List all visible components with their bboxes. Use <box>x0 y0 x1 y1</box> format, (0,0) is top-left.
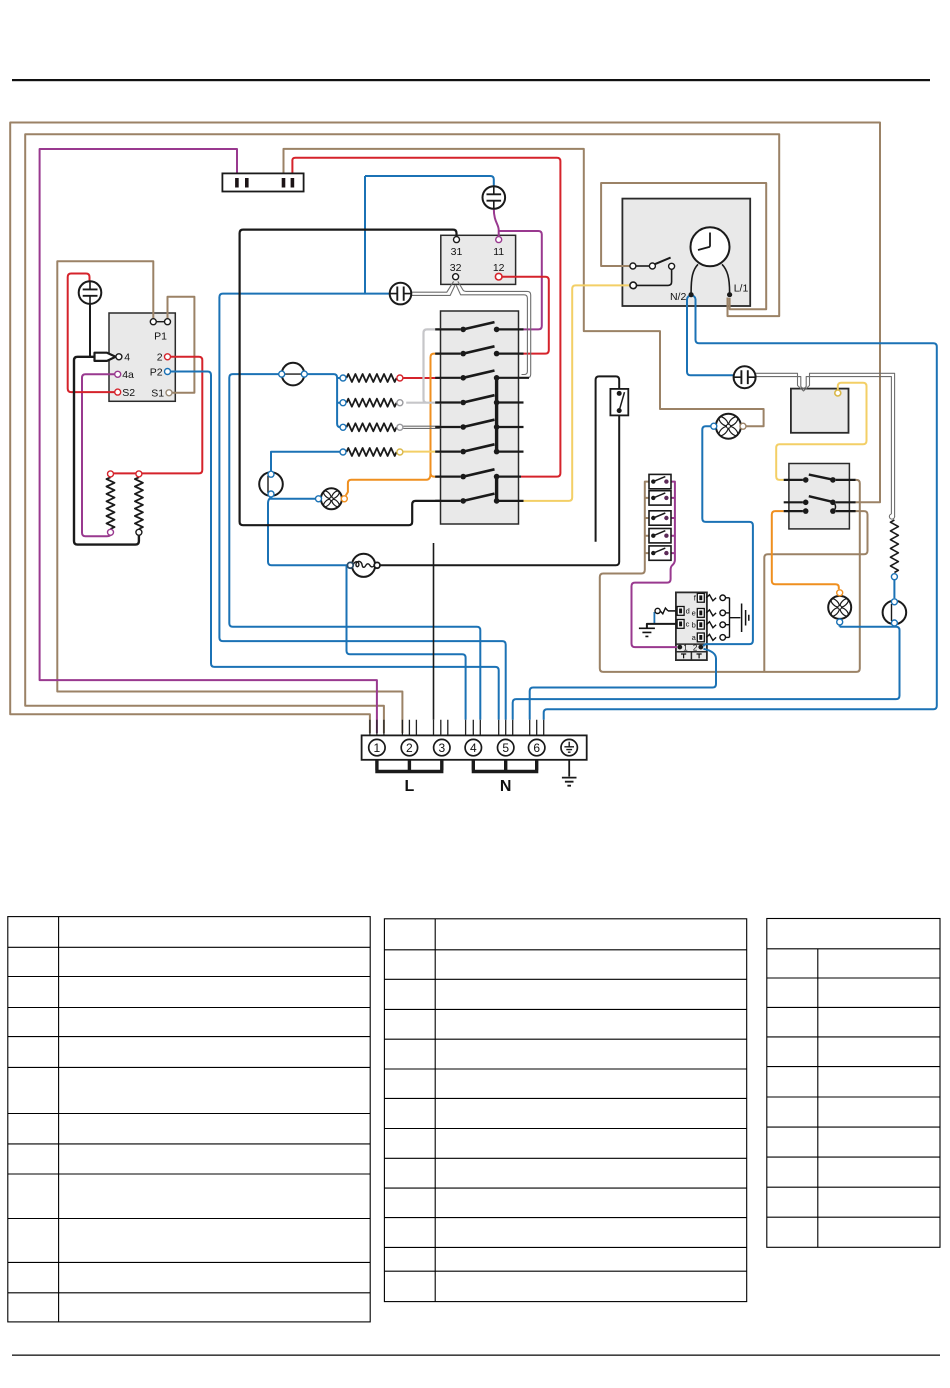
wire blue ignition switch link <box>653 612 655 624</box>
wire orange switch row2 to row7 and oven fan 1 <box>346 354 441 496</box>
wire brown mains to terminal 1 and timer L/1 <box>25 134 779 733</box>
bus bar N <box>472 760 539 772</box>
svg-text:L: L <box>405 778 415 795</box>
svg-text:2: 2 <box>157 352 163 364</box>
wire blue motor bottom to oven lamp and terminal 4 <box>268 497 466 720</box>
top heat element resistor <box>890 520 898 573</box>
wire brown relay bus to changeover common <box>600 480 860 672</box>
wire blue thermostat bulb to terminal 4 <box>229 374 480 720</box>
wire brown terminal 2 to regulator P1 left <box>57 261 402 733</box>
relay switch stack <box>649 474 671 488</box>
grill element left <box>107 477 115 529</box>
wire brown changeover row2b branch <box>764 511 867 672</box>
ignition module box <box>676 592 707 660</box>
regulator pin S1 <box>166 390 172 396</box>
svg-text:1: 1 <box>683 644 688 653</box>
svg-text:32: 32 <box>450 262 462 274</box>
wire purple terminal 1 to terminal block <box>40 149 377 733</box>
legend table right <box>767 919 940 1248</box>
timer switch <box>636 265 649 267</box>
svg-text:S1: S1 <box>151 388 164 400</box>
bus bar L <box>375 760 443 772</box>
neon indicator 1 <box>79 281 102 304</box>
wire blue thermostat bulb to element bus <box>304 374 340 427</box>
wire blue motor bottom to oven fan 1 <box>270 497 316 499</box>
terminal strip entry stubs <box>370 720 544 736</box>
energy regulator box P1 <box>109 313 175 401</box>
switch bank contacts <box>435 328 460 330</box>
spark plug electrodes <box>706 595 716 601</box>
heating element 4 <box>347 448 397 456</box>
ignition door switch <box>668 610 677 612</box>
regulator pin 4a <box>115 371 121 377</box>
wire red element 1 to switch row3 <box>403 377 441 379</box>
wire brown terminal block to oven fan <box>284 149 764 426</box>
svg-text:e: e <box>692 609 696 618</box>
wire blue P2 to terminal 5 <box>171 372 499 720</box>
wire blue cooling fan and motor 2 to terminal 5 <box>513 625 900 720</box>
svg-text:4a: 4a <box>122 369 134 381</box>
svg-text:N/2: N/2 <box>670 291 687 303</box>
regulator pin 2 <box>165 354 171 360</box>
ignition module pin squares <box>697 593 704 602</box>
wire brown P1 right to S1 <box>168 297 195 393</box>
svg-text:P1: P1 <box>154 331 167 343</box>
wire brown timer loop L/1 to timer contact <box>601 183 766 309</box>
wire blue timer N/2 loop <box>687 295 696 299</box>
wire white element 3 to switch row5 <box>403 426 441 428</box>
wire black door switch to free end <box>596 376 620 541</box>
wire blue ignition module pin 2 to terminal 6 <box>530 649 716 720</box>
wire red terminal block to switch row7 <box>292 158 560 477</box>
oven fan 2 <box>716 414 741 439</box>
heating element 1 <box>347 374 397 382</box>
heating element 3 <box>347 423 397 431</box>
selector switch bank box <box>441 311 519 524</box>
wire blue top feed to neon 2 <box>365 176 494 186</box>
regulator pin 4 <box>116 354 122 360</box>
timer pin L/1 <box>727 292 732 297</box>
wire yellow timer contact to switch row8 <box>524 285 631 501</box>
regulator pin P2 <box>165 369 171 375</box>
connector chevron at pin 4 <box>95 353 116 361</box>
changeover switch box <box>789 464 850 529</box>
svg-text:3: 3 <box>438 741 445 755</box>
svg-text:b: b <box>692 621 696 630</box>
wire black thermostat pin 31 loop to switch row8 <box>240 230 457 526</box>
regulator pins P1 <box>150 319 156 325</box>
wire yellow grill lamp to changeover row1 <box>776 383 866 480</box>
regulator pin S2 <box>115 389 121 395</box>
wire black oven lamp to door switch <box>380 414 619 566</box>
ignition module pin 2 <box>698 645 703 650</box>
thermostat pin 31 <box>454 237 460 243</box>
wire red regulator S2 to neon top <box>68 274 115 393</box>
svg-text:1: 1 <box>374 741 381 755</box>
motor 2 <box>883 601 907 625</box>
burner earth symbol <box>742 604 749 633</box>
wire red regulator pin 2 to grill elements <box>114 357 203 474</box>
timer clock <box>691 227 730 266</box>
grill heating lamp box <box>791 389 849 433</box>
wire yellow element 4 to switch row6 <box>403 451 441 453</box>
svg-text:31: 31 <box>451 246 463 258</box>
svg-text:c: c <box>686 620 690 629</box>
svg-text:S2: S2 <box>122 387 135 399</box>
wire blue oven fan to ignition module pin 2 <box>702 426 753 646</box>
wire black terminal 3 riser <box>433 543 435 720</box>
wire white pilot lamp to thermostat pin 32 <box>411 281 453 292</box>
legend table middle <box>384 919 746 1302</box>
mains terminal strip <box>362 735 587 759</box>
svg-text:11: 11 <box>493 246 504 258</box>
wire blue timer N/2 to thermo lamp <box>687 299 733 375</box>
fan motor 1 <box>259 472 283 496</box>
legend table left <box>8 917 370 1322</box>
svg-text:4: 4 <box>470 741 477 755</box>
thermostat pin 32 <box>453 274 459 280</box>
svg-text:2: 2 <box>406 741 413 755</box>
svg-text:d: d <box>686 607 690 616</box>
heating element 2 <box>347 399 397 407</box>
oven thermostat bulb <box>282 363 305 386</box>
wire orange changeover row2b to cooling fan <box>772 511 839 589</box>
ignition module earth <box>647 624 677 628</box>
ignition module bottom cells <box>681 654 702 658</box>
ignition module pin 1 <box>677 645 682 650</box>
thermostat box <box>441 235 516 284</box>
wire blue motor top to element 4 <box>271 452 340 471</box>
wire red thermostat pin 12 to switch row2 <box>502 277 549 354</box>
door switch <box>610 389 628 416</box>
thermostat pin 12 <box>495 273 502 280</box>
svg-text:12: 12 <box>493 262 505 274</box>
wire purple regulator 4a to grill element <box>82 374 114 536</box>
svg-text:L/1: L/1 <box>734 283 749 295</box>
oven lamp <box>352 554 375 577</box>
thermo lamp <box>734 366 756 388</box>
grill lamp box pin <box>835 390 841 396</box>
wire black grill element to regulator pin 4 <box>74 357 139 545</box>
wire purple neon to thermostat pin 11 <box>494 209 499 237</box>
wire blue timer N/2 to terminal 6 <box>544 299 937 720</box>
wire purple relay bus to ignition module pin 1 <box>632 482 678 647</box>
changeover switch contacts <box>784 480 856 511</box>
wire white thermo lamp to grill lamp box and element <box>756 373 895 517</box>
wire purple thermostat pin 11 to switch row1 <box>499 231 542 329</box>
thermostat pin 11 <box>496 237 502 243</box>
svg-text:6: 6 <box>533 741 540 755</box>
svg-text:P2: P2 <box>150 366 163 378</box>
wire brown mains to terminal 1 and changeover row2a <box>10 123 880 734</box>
wire blue pilot lamp to terminal 5 <box>219 294 505 720</box>
timer box <box>622 199 750 306</box>
neon indicator 2 <box>483 186 506 209</box>
wire gray switch row1 jumper to row4 and element 2 <box>406 329 441 402</box>
wire white thermostat pin 32 to switch row3 <box>456 285 527 374</box>
wire blue top feed down to pilot lamp <box>365 176 390 294</box>
wire blue element to motor 2 top <box>893 580 895 598</box>
svg-text:2: 2 <box>693 644 698 653</box>
bottom rule line <box>12 1355 940 1356</box>
grill element right <box>135 477 143 529</box>
top rule line <box>12 79 930 81</box>
svg-text:N: N <box>500 778 512 795</box>
timer pin N/2 <box>689 292 694 297</box>
earth symbol <box>562 760 577 786</box>
pilot lamp <box>390 283 412 305</box>
svg-text:4: 4 <box>124 352 130 364</box>
oven fan 1 <box>321 488 342 509</box>
svg-text:5: 5 <box>502 741 509 755</box>
mains terminal block <box>222 173 303 191</box>
wire black neon bottom to pin 4 line <box>89 304 91 357</box>
cooling fan <box>828 596 851 619</box>
